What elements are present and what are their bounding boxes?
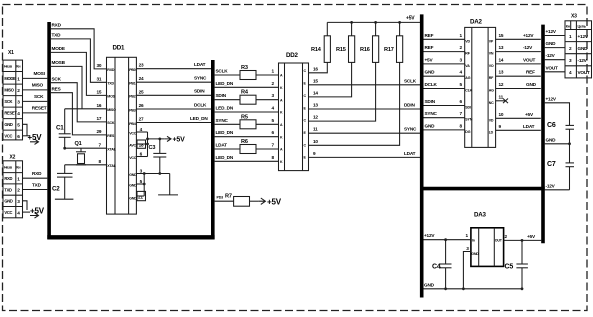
svg-text:+5V: +5V	[525, 112, 534, 117]
svg-text:AG: AG	[465, 76, 470, 80]
wire DD2.10 to R17	[309, 62, 400, 145]
svg-text:SCK: SCK	[34, 94, 44, 99]
svg-text:LED_DN: LED_DN	[216, 130, 234, 135]
svg-text:15: 15	[499, 33, 504, 38]
capacitor C7	[547, 144, 574, 190]
DAC DA2	[465, 19, 496, 148]
svg-text:GND: GND	[424, 282, 435, 287]
svg-text:LDAT: LDAT	[216, 143, 228, 148]
power +5V at X2	[23, 207, 45, 219]
svg-text:Цепь: Цепь	[578, 24, 587, 28]
svg-text:C6: C6	[547, 122, 556, 129]
MCU DD1	[107, 45, 137, 215]
svg-text:+12V: +12V	[546, 29, 557, 34]
svg-text:AG: AG	[489, 89, 494, 93]
wire MOSI X1.1	[23, 71, 48, 78]
wire SDIN to DD2.3 + resistor R4	[215, 90, 279, 105]
svg-text:C5: C5	[505, 264, 514, 271]
connector X3	[565, 14, 592, 78]
svg-text:+12V: +12V	[578, 34, 589, 39]
svg-text:RXD: RXD	[52, 23, 62, 28]
svg-text:VN: VN	[489, 52, 494, 56]
svg-text:24: 24	[139, 76, 144, 81]
svg-text:+12V: +12V	[523, 33, 534, 38]
svg-text:NC: NC	[489, 101, 494, 105]
svg-text:+12V: +12V	[546, 96, 557, 101]
wire +12V to C6	[545, 96, 570, 125]
capacitor C1	[56, 109, 71, 150]
svg-text:GND: GND	[546, 137, 557, 142]
svg-text:SYN: SYN	[465, 118, 472, 122]
resistor R14	[311, 22, 330, 62]
svg-text:PB3: PB3	[129, 108, 136, 112]
svg-text:C2: C2	[52, 186, 60, 193]
svg-text:23: 23	[139, 63, 144, 68]
svg-text:PB2: PB2	[129, 95, 136, 99]
svg-text:15: 15	[313, 78, 318, 83]
wire LED_DN DD1.27	[136, 116, 211, 123]
svg-text:C3: C3	[149, 145, 156, 151]
VCC net DD1 pins 4,18,6	[136, 132, 149, 157]
wire XTAL2 pin8	[65, 164, 107, 166]
bus bar right (thick)	[541, 25, 545, 244]
svg-text:27: 27	[139, 117, 144, 122]
resistor R7	[215, 194, 259, 207]
svg-text:16: 16	[97, 103, 102, 108]
svg-text:AVC: AVC	[129, 143, 136, 147]
wire +12V DA2.15	[496, 33, 541, 40]
svg-text:VOUT: VOUT	[546, 65, 559, 70]
wire LED_DN to DD2.6	[215, 130, 279, 137]
svg-text:MOSB: MOSB	[52, 60, 66, 65]
svg-text:MOSI: MOSI	[34, 71, 45, 76]
svg-text:R6: R6	[241, 139, 248, 145]
svg-text:GND: GND	[129, 173, 137, 177]
svg-text:In: In	[472, 239, 475, 243]
svg-text:Назв: Назв	[4, 166, 13, 170]
svg-text:DCLK: DCLK	[194, 102, 207, 107]
svg-text:21: 21	[138, 195, 143, 200]
connector X1	[3, 50, 23, 140]
svg-text:SDIN: SDIN	[425, 99, 436, 104]
wire -12V DA2.13	[496, 45, 541, 52]
svg-text:14: 14	[313, 90, 318, 95]
svg-text:R5: R5	[241, 114, 248, 120]
wire LED_DN to DD2.8	[215, 155, 279, 162]
svg-text:DD1: DD1	[113, 45, 126, 52]
svg-text:LED_DN: LED_DN	[190, 116, 208, 121]
wire LDAT DA2.9	[496, 124, 541, 131]
wire SYNC DA2.7	[424, 111, 465, 118]
svg-text:TXD: TXD	[52, 33, 62, 38]
svg-text:C7: C7	[547, 161, 556, 168]
svg-text:+5V: +5V	[425, 57, 434, 62]
capacitor C5	[505, 240, 528, 288]
svg-text:SYNC: SYNC	[404, 127, 417, 132]
wire +12V to X3.1	[545, 29, 565, 36]
svg-text:TXD: TXD	[107, 82, 114, 86]
wire DD2.12 to R16	[309, 62, 376, 121]
svg-text:VOUT: VOUT	[523, 57, 536, 62]
svg-text:LD: LD	[489, 130, 494, 134]
svg-text:Кн: Кн	[16, 166, 20, 170]
svg-text:SDIN: SDIN	[216, 93, 227, 98]
wire LED_DN to DD2.2	[215, 81, 279, 88]
svg-text:PB1: PB1	[129, 82, 136, 86]
wire SCLK DD2.15 to bus	[309, 78, 422, 85]
svg-text:REF: REF	[425, 33, 434, 38]
svg-text:SDI: SDI	[465, 106, 471, 110]
svg-text:30: 30	[97, 63, 102, 68]
capacitor C2	[52, 165, 73, 199]
svg-text:12: 12	[499, 82, 504, 87]
svg-text:VD: VD	[465, 39, 470, 43]
svg-text:11: 11	[313, 127, 318, 132]
svg-text:MOS: MOS	[107, 95, 115, 99]
power +5V at X1	[23, 133, 43, 144]
svg-text:R16: R16	[360, 47, 370, 53]
svg-text:VD: VD	[489, 118, 494, 122]
wire MOSI to DD1.15	[51, 46, 107, 95]
svg-text:X3: X3	[571, 14, 577, 20]
svg-text:R17: R17	[384, 47, 394, 53]
svg-text:R14: R14	[311, 47, 322, 53]
svg-text:13: 13	[313, 103, 318, 108]
wire REF DA2.13b	[496, 70, 541, 77]
svg-text:12: 12	[313, 115, 318, 120]
svg-text:13: 13	[499, 70, 504, 75]
+5V rail for pullups	[327, 16, 421, 24]
svg-text:R15: R15	[336, 47, 346, 53]
wire GND DA2.12	[496, 82, 541, 89]
wire SCLK to DD2.1 + resistor R3	[215, 65, 279, 80]
capacitor C3	[149, 139, 167, 174]
wire +5V DA2.10	[496, 112, 541, 119]
svg-text:REF: REF	[526, 70, 535, 75]
svg-text:LED_DN: LED_DN	[216, 81, 234, 86]
wire GND DA2.4	[424, 70, 465, 77]
wire SDIN DA2.6	[424, 99, 465, 106]
svg-text:11: 11	[499, 94, 504, 99]
svg-text:GND: GND	[578, 46, 589, 51]
wire GND to X3.2	[545, 41, 565, 48]
wire MISO X1.2	[23, 83, 48, 90]
DD1 left pins	[97, 63, 117, 168]
svg-text:RXD: RXD	[107, 68, 115, 72]
svg-text:18: 18	[139, 143, 144, 148]
svg-text:TXD: TXD	[32, 182, 42, 187]
ground symbol	[158, 174, 178, 195]
svg-text:REF: REF	[425, 45, 434, 50]
wire SDIN DD1.25	[136, 89, 211, 96]
svg-text:DG: DG	[465, 130, 470, 134]
wire GND rail DA3	[424, 282, 524, 290]
svg-text:26: 26	[139, 103, 144, 108]
wire VOUT DA2.14	[496, 57, 541, 64]
svg-text:OUT: OUT	[495, 239, 503, 243]
wire RES to DD1.29	[51, 86, 107, 134]
svg-text:RXD: RXD	[32, 171, 42, 176]
wire DCLK DA2.5	[424, 82, 465, 89]
wire DDIN DD2.13 to bus	[309, 103, 422, 110]
wire MISO to DD1.16	[51, 60, 82, 109]
svg-text:GND: GND	[471, 252, 479, 256]
svg-text:VCC: VCC	[4, 210, 12, 215]
wire RXD to DD1.30	[51, 23, 107, 69]
svg-text:GND: GND	[425, 123, 436, 128]
wire REF DA2.1	[424, 33, 465, 40]
svg-text:GND: GND	[425, 70, 436, 75]
svg-text:XTAL: XTAL	[107, 148, 116, 152]
wire +5V DA2.3	[424, 57, 465, 64]
svg-text:SYNC: SYNC	[216, 118, 229, 123]
node XTAL1 wire	[65, 108, 107, 110]
wire LDAT DD2.9 to bus	[309, 151, 422, 158]
resistor R15	[336, 22, 355, 62]
svg-text:-12V: -12V	[578, 58, 588, 63]
svg-text:VOUT: VOUT	[578, 70, 591, 75]
svg-text:GND: GND	[4, 199, 13, 204]
svg-text:R7: R7	[225, 194, 232, 200]
power +5V at R7	[258, 198, 281, 207]
svg-text:Кн: Кн	[16, 65, 20, 69]
svg-text:C4: C4	[432, 264, 441, 271]
svg-text:GND: GND	[4, 122, 13, 127]
svg-text:SYNC: SYNC	[425, 111, 438, 116]
wire DA3.3 GND	[463, 246, 471, 289]
svg-text:C1: C1	[56, 125, 64, 132]
GND net DD1 pins 3,5,21	[136, 172, 169, 196]
svg-text:R4: R4	[241, 90, 249, 96]
wire RXD X2.1	[23, 171, 48, 178]
connector X2	[3, 155, 23, 218]
svg-text:17: 17	[97, 116, 102, 121]
svg-text:RES: RES	[107, 134, 115, 138]
svg-text:SCK: SCK	[4, 99, 12, 104]
svg-text:DDIN: DDIN	[404, 103, 415, 108]
svg-text:VCC: VCC	[129, 131, 137, 135]
svg-text:R3: R3	[241, 65, 248, 71]
svg-text:-12V: -12V	[546, 183, 556, 188]
wire VOUT to X3.4	[545, 65, 565, 72]
svg-text:MISO: MISO	[32, 83, 44, 88]
svg-text:+5V: +5V	[267, 198, 282, 207]
wire LED_DN to DD2.4	[215, 106, 279, 113]
svg-text:15: 15	[97, 90, 102, 95]
svg-text:VA: VA	[465, 64, 470, 68]
svg-text:TXD: TXD	[4, 187, 12, 192]
wire SYNC to DD2.5 + resistor R5	[215, 114, 279, 129]
capacitor C4	[432, 240, 452, 289]
svg-text:LED_DN: LED_DN	[216, 106, 234, 111]
svg-text:Назв: Назв	[4, 65, 13, 69]
svg-text:10: 10	[313, 139, 318, 144]
bus bar -12V horizontal (thick)	[420, 187, 545, 191]
svg-text:MISO: MISO	[107, 108, 116, 112]
wire TXD X2.2	[23, 182, 48, 189]
svg-text:VCC: VCC	[129, 156, 137, 160]
svg-text:14: 14	[499, 57, 504, 62]
svg-text:DD2: DD2	[286, 52, 299, 59]
bus bar left (thick)	[420, 14, 424, 297]
svg-text:Кн: Кн	[566, 24, 570, 28]
wire GND DA2.8	[424, 123, 465, 129]
wire -12V to C7	[545, 183, 570, 190]
wire TXD to DD1.31	[51, 33, 107, 83]
regulator DA3	[471, 212, 504, 267]
svg-text:GND: GND	[546, 41, 557, 46]
wire SYNC DD1.24	[136, 76, 211, 83]
svg-text:31: 31	[97, 76, 102, 81]
svg-text:29: 29	[97, 129, 102, 134]
svg-text:SCLK: SCLK	[216, 69, 229, 74]
capacitor C6	[547, 122, 574, 144]
svg-text:GND: GND	[129, 196, 137, 200]
svg-text:25: 25	[139, 89, 144, 94]
svg-text:GND: GND	[526, 82, 537, 87]
svg-text:DCLK: DCLK	[425, 82, 438, 87]
svg-text:GND: GND	[129, 183, 137, 187]
wire GND to C6/C7	[545, 137, 571, 145]
svg-text:XTAL: XTAL	[107, 164, 116, 168]
svg-text:LED_DN: LED_DN	[216, 155, 234, 160]
svg-text:X1: X1	[8, 50, 14, 56]
svg-text:SCLK: SCLK	[404, 78, 417, 83]
svg-text:RXD: RXD	[4, 176, 12, 181]
svg-text:+5V: +5V	[406, 16, 415, 22]
svg-text:DA3: DA3	[474, 212, 487, 219]
wire LDAT to DD2.7 + resistor R6	[215, 139, 279, 154]
svg-text:LDAT: LDAT	[523, 124, 535, 129]
module boundary (thick)	[47, 22, 214, 239]
svg-text:PB0: PB0	[129, 68, 136, 72]
svg-text:-12V: -12V	[523, 45, 533, 50]
resistor R17	[384, 22, 403, 62]
svg-text:+12V: +12V	[424, 233, 435, 238]
svg-text:+5V: +5V	[28, 133, 43, 142]
svg-text:Q1: Q1	[75, 141, 82, 147]
svg-text:VCC: VCC	[4, 134, 12, 139]
svg-text:MODE: MODE	[52, 46, 65, 51]
wire RESET X1.4	[23, 106, 48, 113]
wire REF DA2.2	[424, 45, 465, 52]
svg-text:-12V: -12V	[546, 53, 556, 58]
wire DD2.16 to R14	[309, 62, 328, 72]
wire SCK to DD1.17	[51, 76, 107, 122]
wire DD2.14 to R15	[309, 62, 352, 97]
svg-text:SDIN: SDIN	[194, 89, 205, 94]
svg-text:PD3: PD3	[217, 196, 224, 200]
svg-text:LDAT: LDAT	[194, 62, 206, 67]
svg-text:DA2: DA2	[470, 19, 483, 26]
wire SYNC DD2.11 to bus	[309, 127, 422, 134]
wire SCK X1.3	[23, 94, 48, 101]
svg-text:SCK: SCK	[52, 76, 62, 81]
wire XTAL1 pin7	[65, 147, 107, 149]
resistor R16	[360, 22, 379, 62]
svg-text:+5V: +5V	[527, 234, 536, 239]
svg-text:RES: RES	[52, 86, 61, 91]
svg-text:MISO: MISO	[4, 88, 14, 93]
svg-text:X2: X2	[10, 155, 16, 161]
svg-text:RESET: RESET	[4, 111, 17, 116]
svg-text:SCK: SCK	[107, 121, 115, 125]
wire GND X2.3	[23, 201, 28, 210]
wire GND X1.5	[23, 124, 28, 136]
svg-text:PB4: PB4	[129, 122, 136, 126]
svg-text:SYNC: SYNC	[194, 76, 207, 81]
DD1 right pin labels	[129, 63, 145, 201]
wire +12V to DA3.1	[424, 233, 471, 241]
svg-text:10: 10	[499, 112, 504, 117]
svg-text:RESET: RESET	[32, 106, 47, 111]
svg-text:16: 16	[313, 66, 318, 71]
svg-text:CLK: CLK	[465, 89, 472, 93]
svg-text:MODE: MODE	[4, 76, 16, 81]
svg-text:+5V: +5V	[173, 137, 186, 144]
wire LDAT DD1.23	[136, 62, 211, 69]
crystal Q1	[75, 141, 87, 165]
svg-text:13: 13	[499, 45, 504, 50]
wire DCLK DD1.26	[136, 102, 211, 109]
pin DA2.11 no connect	[496, 94, 508, 103]
wire DA3.2 OUT to +5V bus	[504, 234, 542, 242]
svg-text:+5V: +5V	[30, 207, 45, 216]
optocoupler DD2	[279, 52, 309, 171]
power +5V at DD1	[148, 136, 186, 143]
svg-text:VO: VO	[489, 64, 494, 68]
wire -12V to X3.3	[545, 53, 565, 60]
svg-text:LDAT: LDAT	[404, 151, 416, 156]
